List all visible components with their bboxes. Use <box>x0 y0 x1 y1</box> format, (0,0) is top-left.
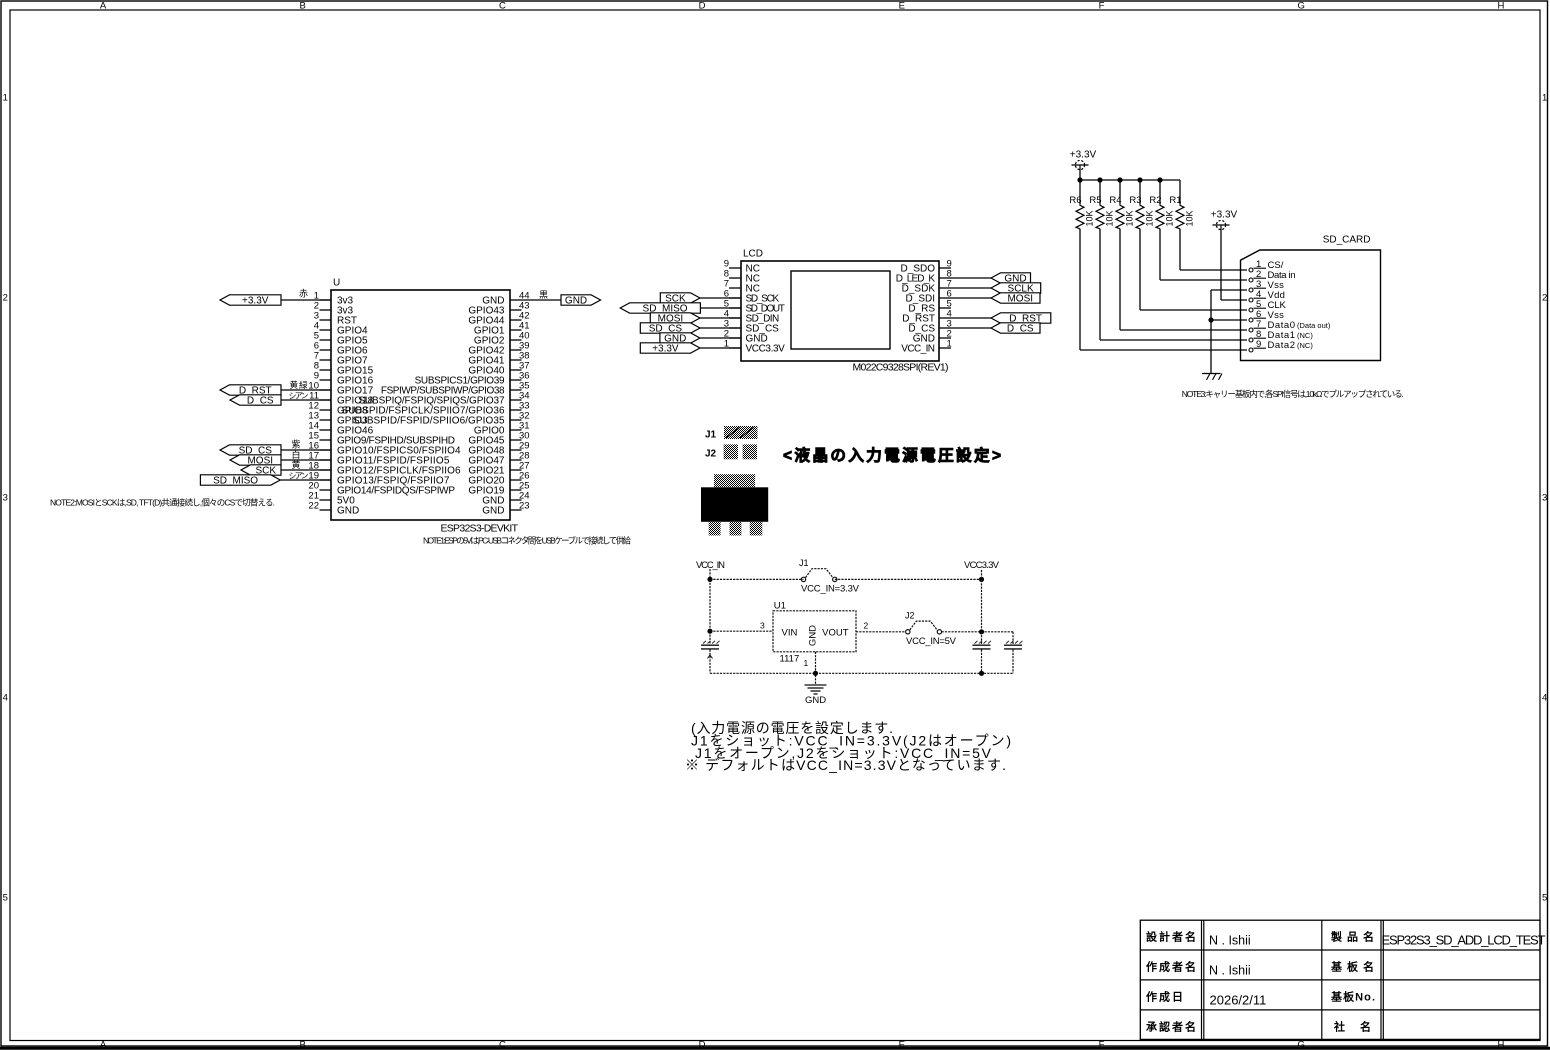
svg-text:シアン: シアン <box>289 472 309 481</box>
U pin 27 GPIO21 <box>468 461 529 477</box>
wire GND to LCD pin2 <box>700 337 741 339</box>
svg-text:基板No.: 基板No. <box>1330 990 1375 1004</box>
wire R3 to SD_CARD <box>1140 229 1247 310</box>
U pin 21 5V0 <box>308 491 355 507</box>
ground flag GND (U pin44) <box>561 295 601 307</box>
capacitor C (input) <box>701 631 720 673</box>
wire SCK to U pin18, color label 黄 <box>281 459 331 470</box>
svg-text:NOTE2:MOSIとSCKは,SD, TFT(D)共通接続: NOTE2:MOSIとSCKは,SD, TFT(D)共通接続し,個々のCSで切替… <box>50 498 275 508</box>
LCD pin 4 D_RST (right) <box>902 309 952 325</box>
capacitor C (output 1) <box>973 632 992 674</box>
svg-text:GND: GND <box>482 506 504 517</box>
wire MOSI to U pin17, color label 白 <box>281 449 331 460</box>
wire +3.3V to SD_CARD pin4 Vdd <box>1221 230 1247 301</box>
svg-text:E: E <box>899 1039 905 1050</box>
wire LCD pin4 to D_RST flag <box>951 317 991 319</box>
ground symbol GND (regulator) <box>805 685 827 706</box>
wire R4 to SD_CARD <box>1120 229 1247 330</box>
note jumper settings line1 <box>691 720 893 736</box>
resistor R4 10K <box>1109 180 1134 229</box>
resistor R5 10K <box>1089 180 1114 229</box>
U pin 1 3v3 <box>314 291 354 307</box>
wire VCC_IN top rail <box>710 569 982 579</box>
U pin 10 GPIO17 <box>308 381 373 397</box>
regulator package photo (SOT-89) <box>701 474 768 535</box>
svg-text:ESP32S3_SD_ADD_LCD_TEST: ESP32S3_SD_ADD_LCD_TEST <box>1382 933 1546 948</box>
svg-text:基板名: 基板名 <box>1330 960 1374 974</box>
flag SD_CS <box>220 445 281 457</box>
flag D_RST (LCD pin4) <box>991 313 1051 325</box>
svg-text:MOSI: MOSI <box>1007 294 1033 305</box>
LCD pin 8 NC (left) <box>724 269 760 285</box>
wire bottom rail <box>710 672 1013 674</box>
flag D_RST <box>220 385 281 397</box>
jumper J2 (schematic) VCC_IN=5V <box>905 611 957 648</box>
ground flag GND (LCD pin2) <box>660 333 700 345</box>
svg-text:R2: R2 <box>1149 195 1161 206</box>
resistor R1 10K <box>1169 180 1194 229</box>
LCD pin 5 SD_DOUT (left) <box>724 299 785 315</box>
svg-text:C: C <box>499 1039 506 1050</box>
title block <box>1140 920 1545 1039</box>
resistor R2 10K <box>1149 180 1174 229</box>
U pin 19 GPIO13/FSPIQ/FSPIIO7 <box>308 471 449 487</box>
LCD pin 2 GND (right) <box>913 329 952 345</box>
svg-text:R6: R6 <box>1069 195 1081 206</box>
SD_CARD pin 2 Data in <box>1249 269 1296 282</box>
note jumper settings line2 <box>691 733 1011 749</box>
svg-text:SD_MISO: SD_MISO <box>213 476 258 487</box>
svg-text:+3.3V: +3.3V <box>1070 150 1097 161</box>
junction at (710,579) <box>707 577 712 582</box>
wire R5 to SD_CARD <box>1100 229 1247 340</box>
wire U1 VOUT to J2 <box>856 631 906 633</box>
SD_CARD pin 5 CLK <box>1249 299 1287 312</box>
svg-text:Data2: Data2 <box>1268 340 1296 351</box>
svg-text:4: 4 <box>1542 693 1547 704</box>
flag SD_CS (LCD pin3) <box>640 323 700 335</box>
svg-text:D: D <box>699 1039 706 1050</box>
wire +3.3V to U pin1, color label 赤 <box>281 289 331 300</box>
U pin 41 GPIO1 <box>474 321 530 337</box>
flag MOSI (LCD pin4) <box>650 313 700 325</box>
resistor R6 10K <box>1069 180 1094 229</box>
SD_CARD pin 3 Vss <box>1249 279 1284 292</box>
wire R6 to SD_CARD <box>1080 229 1247 350</box>
LCD pin 6 SD_SCK (left) <box>724 289 780 305</box>
LCD pin 9 NC (left) <box>724 259 760 275</box>
U pin 18 GPIO12/FSPICLK/FSPIIO6 <box>308 461 461 477</box>
svg-text:1117: 1117 <box>780 654 800 665</box>
svg-text:VCC3.3V: VCC3.3V <box>964 560 1000 571</box>
svg-text:2026/2/11: 2026/2/11 <box>1210 993 1267 1008</box>
svg-text:NOTE3:キャリー基板内で,各SPI信号は,10kΩでプル: NOTE3:キャリー基板内で,各SPI信号は,10kΩでプルアップされている. <box>1182 389 1404 399</box>
svg-text:10K: 10K <box>1125 210 1135 226</box>
U pin 12 GPIO8 <box>308 401 368 417</box>
svg-text:2: 2 <box>3 293 8 304</box>
svg-text:5: 5 <box>1542 893 1547 904</box>
note NOTE3 <box>1182 389 1404 399</box>
SD_CARD pin 1 CS/ <box>1249 259 1284 272</box>
svg-text:製品名: 製品名 <box>1330 930 1374 944</box>
svg-text:+3.3V: +3.3V <box>652 344 679 355</box>
note NOTE2 <box>50 498 275 508</box>
svg-text:A: A <box>100 1039 107 1050</box>
U pin 26 GPIO20 <box>468 471 529 487</box>
svg-text:4: 4 <box>3 693 8 704</box>
svg-text:1: 1 <box>1542 93 1547 104</box>
svg-text:10K: 10K <box>1165 210 1175 226</box>
svg-text:M022C9328SPI(REV1): M022C9328SPI(REV1) <box>853 362 949 374</box>
U pin 32 SUBSPID/FSPID/SPIIO6/GPIO35 <box>353 411 530 427</box>
wire to U1 VIN <box>710 630 773 632</box>
svg-text:10K: 10K <box>1145 210 1155 226</box>
svg-text:H: H <box>1497 1039 1504 1050</box>
U pin 29 GPIO48 <box>468 441 529 457</box>
svg-text:R4: R4 <box>1109 195 1121 206</box>
svg-text:N . Ishii: N . Ishii <box>1209 964 1251 978</box>
U pin 3 RST <box>314 311 357 327</box>
wire U1 GND pin to rail <box>815 652 817 684</box>
svg-text:D_CS: D_CS <box>1007 324 1034 335</box>
svg-text:3: 3 <box>1542 493 1547 504</box>
svg-text:VCC_IN=5V: VCC_IN=5V <box>906 636 957 647</box>
svg-text:1: 1 <box>804 658 809 668</box>
svg-text:SD_CARD: SD_CARD <box>1323 235 1371 246</box>
flag MOSI (LCD pin6 D_SDI) <box>991 293 1040 305</box>
connector SD_CARD <box>1241 235 1381 361</box>
power symbol +3.3V (pull-up rail) <box>1070 150 1097 170</box>
LCD value M022C9328SPI(REV1) <box>853 362 949 374</box>
junction at (710,631) <box>707 629 712 634</box>
U pin 25 GPIO19 <box>468 481 529 497</box>
U pin 40 GPIO2 <box>474 331 530 347</box>
wire R1 to SD_CARD <box>1180 229 1247 270</box>
svg-text:D_CS: D_CS <box>247 396 274 407</box>
junction at (981.5,579) <box>979 577 984 582</box>
U pin 13 GPIO3 <box>308 411 368 427</box>
note jumper settings line4 <box>685 757 1006 773</box>
svg-text:+3.3V: +3.3V <box>1211 210 1238 221</box>
svg-text:+3.3V: +3.3V <box>242 296 269 307</box>
flag SCLK (LCD pin7) <box>991 283 1041 295</box>
U pin 36 SUBSPICS1/GPIO39 <box>415 371 530 387</box>
svg-text:(NC): (NC) <box>1297 341 1313 350</box>
svg-text:J2: J2 <box>705 448 717 459</box>
junction at (1100,180) <box>1097 177 1102 182</box>
junction at (1120,180) <box>1117 177 1122 182</box>
LCD pin 3 SD_CS (left) <box>724 319 779 335</box>
svg-text:1: 1 <box>3 93 8 104</box>
svg-text:J1: J1 <box>799 558 809 568</box>
power flag +3.3V (U pin1) <box>220 295 281 307</box>
U pin 38 GPIO41 <box>468 351 529 367</box>
svg-text:9: 9 <box>1256 339 1261 350</box>
svg-text:G: G <box>1298 1039 1305 1050</box>
ground symbol (SD card) <box>1202 374 1222 380</box>
U pin 6 GPIO6 <box>314 341 368 357</box>
flag SD_MISO <box>200 475 280 487</box>
regulator U1 <box>760 601 869 669</box>
wire SD_CS to U pin16, color label 紫 <box>281 439 331 450</box>
LCD pin 6 D_SDI (right) <box>906 289 952 305</box>
svg-text:作成日: 作成日 <box>1146 990 1183 1004</box>
LCD pin 7 NC (left) <box>724 279 760 295</box>
svg-text:U1: U1 <box>774 601 786 612</box>
U pin 39 GPIO42 <box>468 341 529 357</box>
U pin 4 GPIO4 <box>314 321 368 337</box>
svg-text:J2: J2 <box>905 611 915 621</box>
svg-text:黄: 黄 <box>292 459 301 470</box>
svg-text:22: 22 <box>308 501 319 512</box>
IC LCD M022C9328SPI(REV1) <box>724 249 952 374</box>
svg-text:R5: R5 <box>1089 195 1101 206</box>
svg-text:<液晶の入力電源電圧設定>: <液晶の入力電源電圧設定> <box>783 446 1001 465</box>
svg-text:GND: GND <box>808 625 819 646</box>
jumper J1 (photo) <box>705 426 758 440</box>
svg-text:5: 5 <box>3 893 8 904</box>
svg-text:NOTE1:ESPの5Vは,PC-USBコネクタ間をUSBケ: NOTE1:ESPの5Vは,PC-USBコネクタ間をUSBケーブルで接続して供給 <box>423 536 631 546</box>
svg-text:社 名: 社 名 <box>1333 1020 1371 1034</box>
junction at (1080,180) <box>1077 177 1082 182</box>
U pin 5 GPIO5 <box>314 331 368 347</box>
U pin 31 GPIO0 <box>474 421 530 437</box>
svg-text:D: D <box>699 1 706 12</box>
SD_CARD pin 4 Vdd <box>1249 289 1285 302</box>
SD_CARD pin 8 Data1 <box>1249 329 1313 342</box>
svg-text:黄緑: 黄緑 <box>290 380 308 390</box>
net label VCC_IN <box>696 560 725 571</box>
svg-text:※ デフォルトはVCC_IN=3.3Vとなっています.: ※ デフォルトはVCC_IN=3.3Vとなっています. <box>685 757 1006 773</box>
note jumper settings line3 <box>695 745 992 761</box>
svg-text:N . Ishii: N . Ishii <box>1209 934 1251 948</box>
svg-text:B: B <box>300 1 306 12</box>
power flag +3.3V (LCD pin1) <box>640 343 700 355</box>
svg-text:GND: GND <box>805 695 826 706</box>
svg-text:赤: 赤 <box>299 289 308 299</box>
svg-text:B: B <box>300 1039 306 1050</box>
wire LCD pin7 to SCLK flag <box>951 287 991 289</box>
U pin 30 GPIO45 <box>468 431 529 447</box>
U value ESP32S3-DEVKIT <box>441 523 519 535</box>
wire VCC3.3V drop <box>981 570 983 632</box>
svg-text:10K: 10K <box>1185 210 1195 226</box>
U pin 11 GPIO18 <box>309 391 373 407</box>
svg-text:R1: R1 <box>1169 195 1181 206</box>
svg-text:GND: GND <box>337 506 359 517</box>
U pin 8 GPIO15 <box>314 361 374 377</box>
svg-text:C: C <box>499 1 506 12</box>
wire SD_CS to LCD pin3 <box>700 327 741 329</box>
wire SD_CARD pin3 Vss to ground <box>1211 290 1247 374</box>
svg-text:VCC_IN: VCC_IN <box>901 344 935 355</box>
svg-text:G: G <box>1298 1 1305 12</box>
U pin 7 GPIO7 <box>314 351 368 367</box>
svg-text:VIN: VIN <box>782 628 798 639</box>
svg-text:2: 2 <box>864 621 869 631</box>
svg-text:紫: 紫 <box>292 439 301 449</box>
svg-text:3: 3 <box>760 621 765 631</box>
U pin 43 GPIO43 <box>468 301 529 317</box>
wire J2 to caps <box>942 631 1013 633</box>
U pin 23 GND <box>482 501 529 517</box>
SD_CARD pin 7 Data0 <box>1249 319 1331 332</box>
SD_CARD pin 9 Data2 <box>1249 339 1313 352</box>
svg-text:F: F <box>1099 1039 1105 1050</box>
wire pull-up bus <box>1080 179 1180 181</box>
svg-text:VOUT: VOUT <box>822 628 849 639</box>
U pin 17 GPIO11/FSPID/FSPIIO5 <box>308 451 449 467</box>
LCD pin 1 VCC3.3V (left) <box>724 339 785 355</box>
svg-text:R3: R3 <box>1129 195 1141 206</box>
wire VCC_IN left drop <box>709 579 711 631</box>
svg-text:H: H <box>1497 1 1504 12</box>
jumper J1 (schematic) VCC_IN=3.3V <box>799 558 860 595</box>
svg-text:白: 白 <box>292 449 301 460</box>
LCD pin 8 D_LED_K (right) <box>896 269 952 285</box>
wire SD_CARD pin6 Vss to ground <box>1211 319 1247 321</box>
wire R2 to SD_CARD <box>1160 229 1247 280</box>
U pin 9 GPIO16 <box>314 371 374 387</box>
svg-text:LCD: LCD <box>743 249 763 260</box>
svg-text:23: 23 <box>519 501 530 512</box>
svg-text:VCC_IN=3.3V: VCC_IN=3.3V <box>801 584 860 595</box>
junction at (981.5,673.3) <box>979 671 984 676</box>
U pin 42 GPIO44 <box>468 311 529 327</box>
U pin 20 GPIO14/FSPIDQS/FSPIWP <box>308 481 455 497</box>
U pin 24 GND <box>482 491 529 507</box>
wire +3.3V to LCD pin1 <box>700 347 741 349</box>
wire SD_MISO to U pin19, color label シアン <box>280 472 331 481</box>
U pin 16 GPIO10/FSPICS0/FSPIIO4 <box>308 441 461 457</box>
svg-text:U: U <box>333 278 340 289</box>
U pin 33 SUBSPID/FSPICLK/SPIIO7/GPIO36 <box>342 401 530 417</box>
svg-text:黒: 黒 <box>539 290 548 300</box>
junction at (1211,320) <box>1208 317 1213 322</box>
U pin 37 GPIO40 <box>468 361 529 377</box>
capacitor C (output 2) <box>1004 632 1023 674</box>
wire +3.3V stem to bus <box>1079 170 1081 181</box>
flag D_CS (LCD pin3) <box>991 323 1040 335</box>
svg-text:2: 2 <box>1542 293 1547 304</box>
flag SCK (LCD pin6) <box>660 293 700 305</box>
LCD pin 7 D_SDK (right) <box>902 279 952 295</box>
wire LCD pin3 to D_CS flag <box>951 327 991 329</box>
svg-text:GND: GND <box>565 296 587 307</box>
heading 液晶の入力電源電圧設定 <box>783 446 1001 465</box>
junction at (1160,180) <box>1157 177 1162 182</box>
svg-text:VCC3.3V: VCC3.3V <box>746 344 786 355</box>
wire U pin44 to GND flag, color label 黒 <box>522 290 562 300</box>
junction at (1140,180) <box>1137 177 1142 182</box>
LCD pin 2 GND (left) <box>724 329 768 345</box>
jumper J2 (photo) <box>705 444 757 459</box>
LCD pin 4 SD_DIN (left) <box>724 309 779 325</box>
flag D_CS <box>230 395 281 407</box>
flag SD_MISO (LCD pin5) <box>620 303 700 315</box>
svg-text:(NC): (NC) <box>1297 331 1313 340</box>
svg-text:A: A <box>100 1 107 12</box>
note NOTE1 <box>423 536 631 546</box>
SD_CARD pin 6 Vss <box>1249 309 1284 322</box>
svg-text:J1: J1 <box>705 429 717 440</box>
wire LCD pin6 to MOSI flag <box>951 297 991 299</box>
U pin 34 SUBSPIQ/FSPIQ/SPIQS/GPIO37 <box>358 391 529 407</box>
svg-text:(Data out): (Data out) <box>1297 321 1331 330</box>
svg-text:1: 1 <box>947 339 952 350</box>
LCD pin 1 VCC_IN (right) <box>901 339 951 355</box>
resistor R3 10K <box>1129 180 1154 229</box>
LCD pin 3 D_CS (right) <box>908 319 951 335</box>
U pin 14 GPIO46 <box>308 421 373 437</box>
wire SD_MISO to LCD pin5 <box>700 307 741 309</box>
wire D_RST to U pin10, color label 黄緑 <box>281 380 331 390</box>
U pin 35 FSPIWP/SUBSPIWP/GPIO38 <box>381 381 530 397</box>
IC U ESP32S3-DEVKIT <box>308 278 529 535</box>
net label VCC3.3V <box>964 560 1000 571</box>
wire MOSI to LCD pin4 <box>700 317 741 319</box>
wire D_CS to U pin11, color label シアン <box>281 392 331 401</box>
svg-text:E: E <box>899 1 905 12</box>
U pin 2 3v3 <box>314 301 354 317</box>
power symbol +3.3V (SD Vdd) <box>1211 210 1238 230</box>
wire SCK to LCD pin6 <box>700 297 741 299</box>
junction at (815.5,673.3) <box>813 671 818 676</box>
svg-text:シアン: シアン <box>289 392 309 401</box>
flag SCK <box>241 465 281 477</box>
LCD pin 5 D_RS (right) <box>908 299 951 315</box>
svg-text:3: 3 <box>3 493 8 504</box>
flag MOSI <box>230 455 281 467</box>
svg-text:F: F <box>1099 1 1105 12</box>
junction at (981.5,631.8) <box>979 629 984 634</box>
svg-text:ESP32S3-DEVKIT: ESP32S3-DEVKIT <box>441 523 519 535</box>
U pin 22 GND <box>308 501 359 517</box>
LCD pin 9 D_SDO (right) <box>901 259 952 275</box>
wire LCD pin8 to GND flag <box>951 277 991 279</box>
ground flag GND (LCD pin8 D_LED_K) <box>991 273 1031 285</box>
U pin 44 GND <box>482 291 529 307</box>
U pin 15 GPIO9/FSPIHD/SUBSPIHD <box>308 431 455 447</box>
svg-text:10K: 10K <box>1105 210 1115 226</box>
svg-text:10K: 10K <box>1085 210 1095 226</box>
U pin 28 GPIO47 <box>468 451 529 467</box>
